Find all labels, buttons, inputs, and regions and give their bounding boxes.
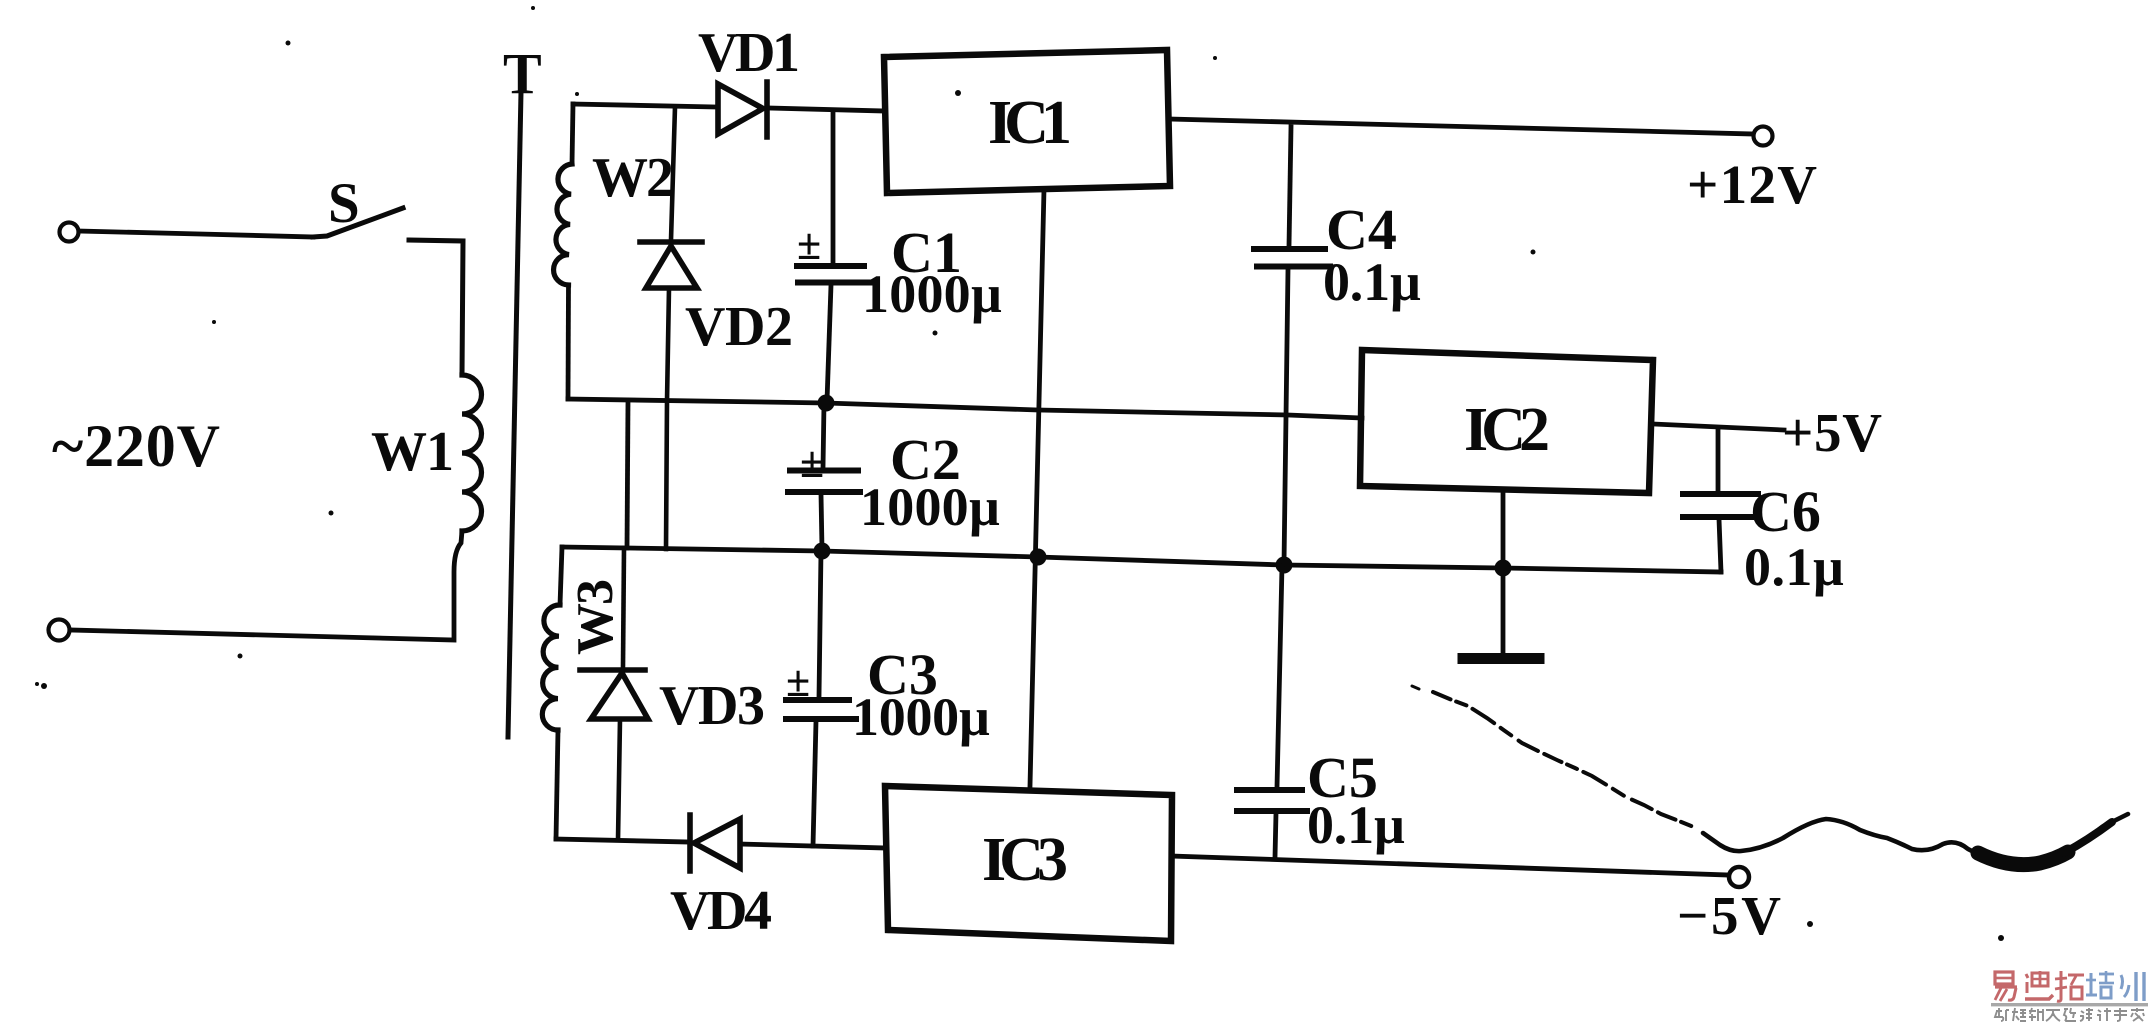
IC3 <box>885 786 1172 941</box>
svg-text:+12V: +12V <box>1687 154 1817 215</box>
capacitor C6 <box>1683 428 1758 572</box>
svg-text:1000µ: 1000µ <box>862 264 1002 324</box>
scan crease artifact <box>1412 686 2128 865</box>
capacitor C1 <box>797 111 871 401</box>
svg-text:0.1µ: 0.1µ <box>1744 537 1844 597</box>
svg-text:1000µ: 1000µ <box>852 687 990 747</box>
svg-text:IC3: IC3 <box>982 826 1068 894</box>
svg-text:±: ± <box>800 438 824 487</box>
IC1 <box>884 50 1170 193</box>
wire rail mid <box>568 399 1362 418</box>
svg-text:T: T <box>503 41 542 106</box>
wire VD4 to IC3 <box>740 844 885 848</box>
diode VD2 <box>640 107 702 549</box>
wire rail zero <box>562 547 1721 572</box>
wire IC1 common pin <box>1030 189 1044 786</box>
svg-text:1000µ: 1000µ <box>860 477 1000 537</box>
svg-text:IC2: IC2 <box>1464 396 1550 464</box>
switch S <box>313 208 463 375</box>
node IC pin rail zero <box>1030 549 1047 566</box>
wire W3 bottom to VD4 <box>556 839 688 842</box>
winding W3 <box>542 547 562 839</box>
capacitor C5 <box>1237 566 1307 857</box>
wire IC2 ground pin <box>1501 490 1506 652</box>
winding W1 <box>462 375 482 531</box>
svg-text:W2: W2 <box>592 147 674 209</box>
terminal input top <box>60 223 79 242</box>
svg-text:VD1: VD1 <box>698 22 800 84</box>
svg-text:W1: W1 <box>371 421 454 483</box>
wire W2 top to IC1 <box>573 104 884 111</box>
wire IC2 out +5V <box>1653 424 1784 430</box>
watermark slogan gray <box>1995 1008 2144 1021</box>
capacitor C2 <box>788 403 860 549</box>
diode VD4 <box>690 815 740 871</box>
capacitor C4 <box>1254 127 1330 564</box>
wire link rail1 to rail0 <box>627 401 628 548</box>
watermark underline <box>1991 1003 2148 1006</box>
diode VD1 <box>718 82 767 137</box>
node C2 bottom <box>814 543 831 560</box>
IC2 <box>1360 350 1653 493</box>
wire IC1 out to +12V <box>1170 119 1753 134</box>
svg-text:IC1: IC1 <box>988 89 1072 157</box>
terminal -5V <box>1729 867 1749 887</box>
watermark logo yiditop red part <box>1995 971 2084 1001</box>
terminal input bottom <box>49 620 70 641</box>
winding W2 <box>554 104 573 399</box>
diode VD3 <box>580 548 648 840</box>
svg-text:VD2: VD2 <box>685 296 793 358</box>
svg-text:−5V: −5V <box>1677 885 1781 946</box>
capacitor C3 <box>786 551 856 846</box>
wire IC3 out to -5V <box>1172 856 1727 875</box>
svg-text:~220V: ~220V <box>52 413 220 479</box>
svg-text:VD3: VD3 <box>659 675 765 737</box>
wire W1 bottom to terminal <box>71 531 462 640</box>
wire input top to switch <box>79 231 313 237</box>
watermark logo yiditop blue part <box>2086 971 2144 1001</box>
svg-text:±: ± <box>786 657 810 706</box>
node C1 bottom <box>818 395 835 412</box>
svg-text:0.1µ: 0.1µ <box>1307 795 1405 855</box>
svg-text:±: ± <box>797 220 821 269</box>
svg-text:W3: W3 <box>567 579 624 655</box>
svg-text:C6: C6 <box>1750 479 1821 544</box>
transformer core T <box>508 92 521 737</box>
svg-text:0.1µ: 0.1µ <box>1323 252 1421 312</box>
node C4 rail zero <box>1276 557 1293 574</box>
node IC2 rail zero <box>1495 560 1512 577</box>
svg-text:VD4: VD4 <box>670 880 772 942</box>
ground <box>1463 653 1539 664</box>
terminal +12V <box>1754 127 1773 146</box>
svg-text:+5V: +5V <box>1782 402 1882 463</box>
svg-text:S: S <box>328 172 360 235</box>
